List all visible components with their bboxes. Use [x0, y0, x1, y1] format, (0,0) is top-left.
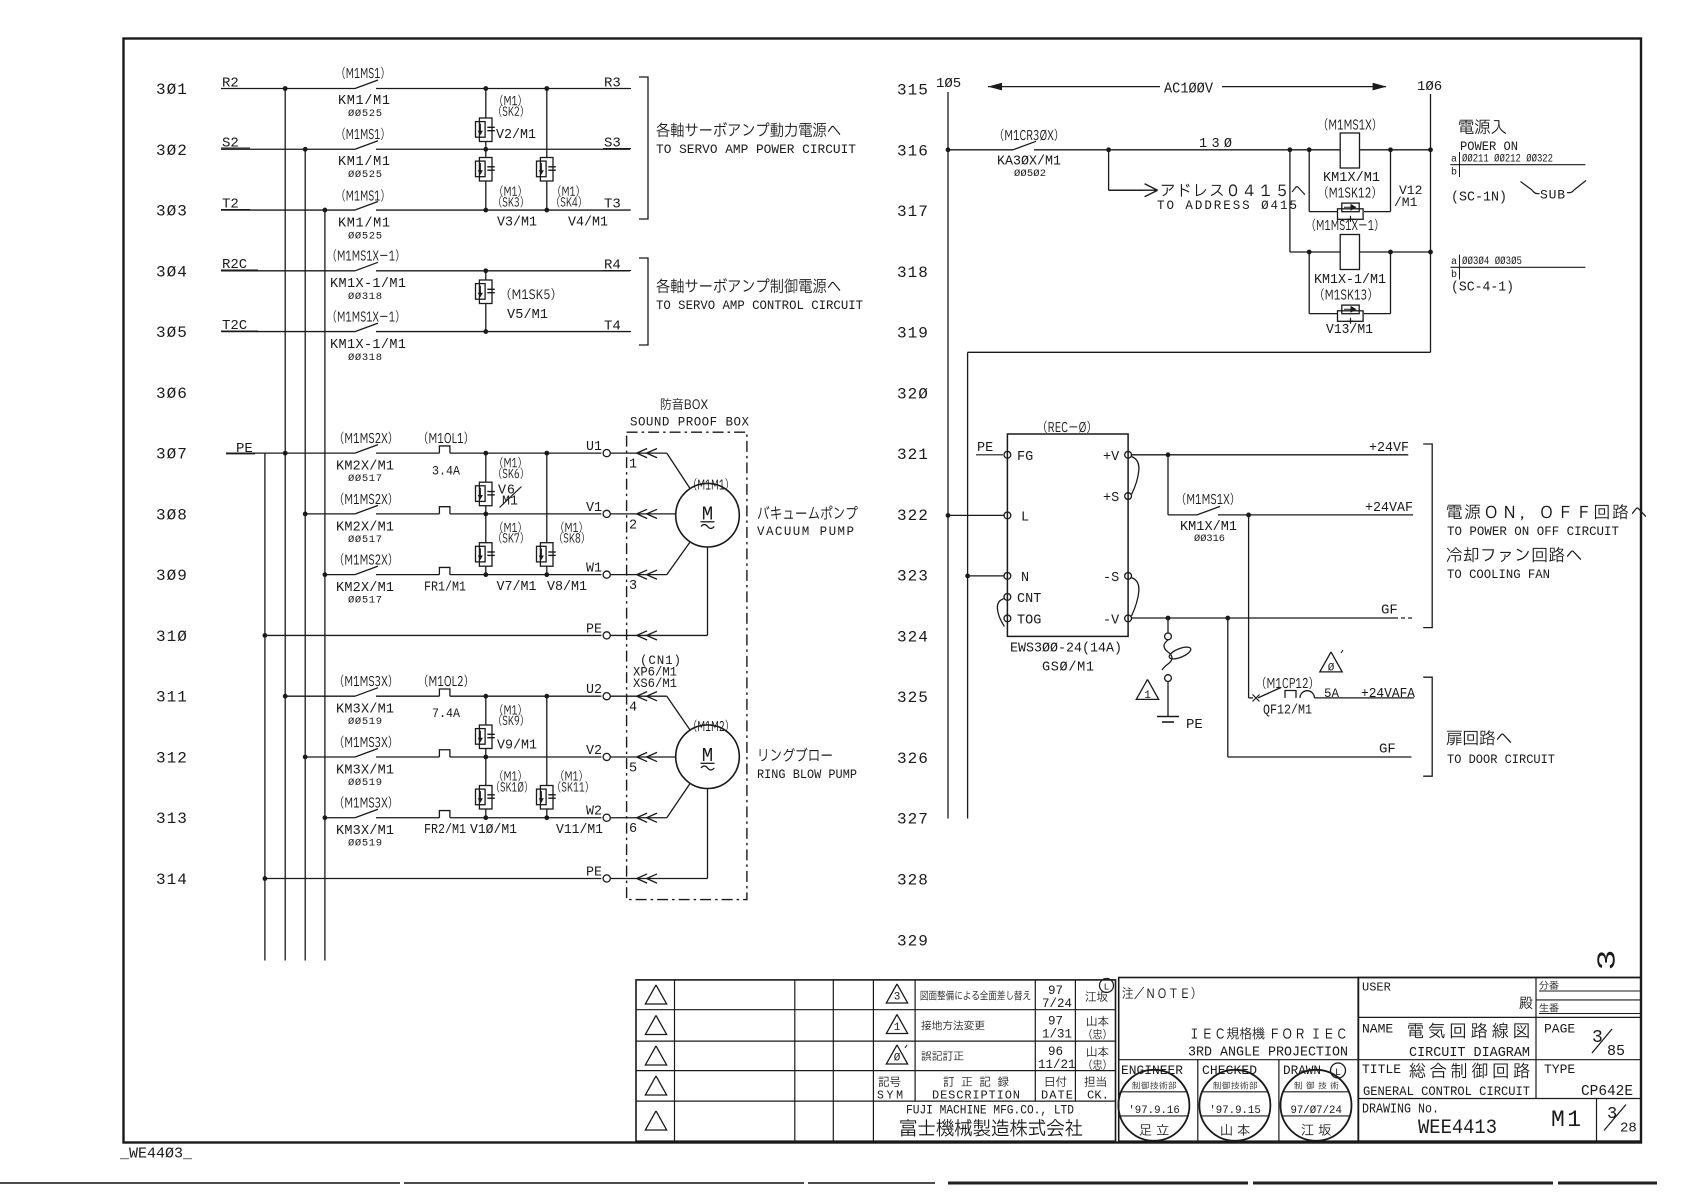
- junction VA row302: [483, 147, 488, 152]
- wire +24VF rail: [1132, 454, 1409, 456]
- svg-text:3Ø9: 3Ø9: [156, 567, 188, 585]
- svg-text:11/21: 11/21: [1038, 1058, 1076, 1072]
- svg-text:5A: 5A: [1324, 687, 1340, 701]
- svg-text:ØØ519: ØØ519: [348, 838, 382, 850]
- svg-text:FR1/M1: FR1/M1: [424, 581, 466, 596]
- svg-text:319: 319: [897, 325, 929, 343]
- junction VA row309: [483, 572, 488, 577]
- junction VA row307: [483, 451, 488, 456]
- rev header ck (jp): [1084, 1076, 1105, 1086]
- wire motor M1M2 to PE row314: [610, 878, 707, 880]
- svg-text:V9/M1: V9/M1: [497, 739, 537, 754]
- stamp row divider: [1119, 1059, 1359, 1061]
- svg-text:3.4A: 3.4A: [432, 465, 460, 479]
- svg-text:KM1X-1/M1: KM1X-1/M1: [1314, 273, 1386, 288]
- svg-text:ØØ517: ØØ517: [348, 534, 382, 546]
- svg-text:PE: PE: [977, 441, 993, 456]
- warning triangle 0: [1320, 652, 1342, 672]
- title block frame: [1358, 978, 1641, 1142]
- coil KM1X/M1 (M1MS1X): [1340, 133, 1359, 168]
- wire branch row322 to QF12: [1248, 515, 1250, 698]
- overload M1OL2 element row311: [439, 689, 450, 696]
- svg-text:PE: PE: [236, 441, 253, 457]
- terminal W2 motor2: [603, 814, 610, 821]
- svg-text:317: 317: [897, 203, 929, 221]
- label NOTE (jp): [1122, 987, 1194, 999]
- svg-text:311: 311: [156, 689, 188, 707]
- svg-text:U1: U1: [586, 440, 602, 455]
- junction VA row311: [483, 694, 488, 699]
- svg-text:TITLE: TITLE: [1362, 1062, 1401, 1077]
- junction +24VF branch: [1166, 452, 1171, 457]
- surge V12/M1 (M1SK12) across coil KM1X: [1307, 147, 1312, 152]
- rev header description (jp): [944, 1077, 1009, 1087]
- svg-text:QF12/M1: QF12/M1: [1263, 704, 1312, 719]
- wire row 308: [305, 513, 355, 515]
- chevron arrows W2 motor2: [637, 813, 647, 822]
- surge absorber V4/M1 (M1 SK4) with feed from row301: [546, 89, 548, 158]
- svg-text:329: 329: [897, 932, 929, 950]
- junction row318 at 106: [1428, 250, 1433, 255]
- bus vertical S phase: [304, 149, 306, 960]
- svg-text:V7/M1: V7/M1: [497, 580, 537, 595]
- junction PE bus row314: [263, 876, 268, 881]
- svg-text:327: 327: [897, 811, 929, 829]
- svg-text:GF: GF: [1379, 742, 1396, 758]
- wire row 302 S2-S3: [221, 148, 355, 150]
- svg-text:'97.9.16: '97.9.16: [1128, 1105, 1179, 1117]
- svg-text:R4: R4: [604, 258, 621, 274]
- rev row2 description (jp): [921, 1020, 984, 1030]
- surge absorber V7/M1 (M1 SK7): [485, 514, 487, 543]
- junction VB row303: [544, 208, 549, 213]
- svg-text:V13/M1: V13/M1: [1326, 323, 1373, 338]
- svg-text:7/24: 7/24: [1042, 997, 1072, 1011]
- overload M1OL1 element row307: [439, 446, 450, 453]
- junction VB row311: [544, 694, 549, 699]
- chevron arrows W1: [637, 570, 647, 579]
- svg-text:3Ø3: 3Ø3: [156, 203, 188, 221]
- svg-text:328: 328: [897, 872, 929, 890]
- sound proof box enclosure (dash-dot): [627, 432, 747, 899]
- junction VA row304: [483, 268, 488, 273]
- motor M1M2 ring blow pump: [676, 725, 740, 789]
- svg-text:1Ø5: 1Ø5: [936, 76, 961, 92]
- junction R bus row311: [283, 694, 288, 699]
- wire GF rail from -V: [1132, 617, 1399, 619]
- svg-text:318: 318: [897, 264, 929, 282]
- label to door circuit (jp): [1447, 730, 1512, 745]
- svg-text:28: 28: [1620, 1121, 1637, 1137]
- rev header sym (jp): [879, 1077, 901, 1087]
- rev row3 by (jp): [1087, 1046, 1108, 1056]
- checked stamp (Yamamoto): [1199, 1070, 1270, 1141]
- junction bus2 N: [965, 574, 970, 579]
- svg-text:3Ø7: 3Ø7: [156, 446, 188, 464]
- junction S bus row308: [303, 511, 308, 516]
- wire motor M1M1 to PE row310: [610, 634, 707, 636]
- svg-text:4: 4: [629, 701, 637, 716]
- engineer stamp (Adachi): [1118, 1070, 1189, 1141]
- svg-text:V3/M1: V3/M1: [497, 216, 537, 231]
- svg-text:TO POWER ON OFF CIRCUIT: TO POWER ON OFF CIRCUIT: [1447, 524, 1619, 539]
- rev row1 by (jp): [1085, 991, 1107, 1001]
- terminal +V: [1125, 451, 1132, 458]
- svg-text:U2: U2: [586, 683, 602, 698]
- svg-text:5: 5: [629, 761, 637, 776]
- terminal U1: [603, 450, 610, 457]
- power supply unit REC-0 EWS300-24: [1007, 434, 1128, 636]
- bunban seiban cells (jp): [1536, 999, 1641, 1001]
- svg-text:PE: PE: [1186, 717, 1203, 733]
- surge absorber V6/M1 (M1 SK6): [485, 453, 487, 482]
- terminal V1: [603, 510, 610, 517]
- svg-text:323: 323: [897, 568, 929, 586]
- wires chevrons to motor M1M2: [610, 695, 667, 697]
- rev row2 by (jp): [1087, 1016, 1108, 1026]
- svg-text:ØØ318: ØØ318: [348, 352, 382, 364]
- svg-text:13Ø: 13Ø: [1199, 137, 1232, 152]
- sense jumper +V +S: [1131, 457, 1139, 495]
- maker name kanji: [900, 1119, 1082, 1136]
- rev triangle 3: [886, 984, 907, 1003]
- terminal CNT: [1004, 594, 1011, 601]
- junction T bus row303: [323, 208, 328, 213]
- junction VB row301: [544, 86, 549, 91]
- svg-text:CK.: CK.: [1087, 1089, 1109, 1103]
- overload element row312: [439, 750, 450, 757]
- coil KM1X-1/M1 (M1MS1X-1): [1340, 235, 1359, 270]
- svg-text:314: 314: [156, 871, 188, 889]
- junction VA row301: [483, 86, 488, 91]
- svg-text:+V: +V: [1103, 450, 1120, 465]
- chevron arrows PE: [637, 631, 647, 640]
- wire row 305 T2C-T4: [221, 331, 355, 333]
- svg-text:V1: V1: [586, 501, 602, 516]
- svg-text:325: 325: [897, 689, 929, 707]
- bus vertical T phase: [324, 210, 326, 960]
- svg-text:97/Ø7/24: 97/Ø7/24: [1290, 1105, 1342, 1117]
- contact KM3X/M1 row313 (M1MS3X): [355, 809, 378, 818]
- branch to address 0415: [1106, 147, 1111, 152]
- contact KM1/M1 row303 (M1MS1): [355, 202, 378, 211]
- svg-text:3: 3: [629, 579, 637, 594]
- svg-text:ØØ5Ø2: ØØ5Ø2: [1014, 168, 1046, 180]
- label to power on off circuit (jp): [1447, 504, 1646, 520]
- rev triangle 1: [886, 1014, 907, 1033]
- svg-text:316: 316: [897, 142, 929, 160]
- svg-text:1: 1: [629, 458, 637, 473]
- label address 0415 (jp): [1162, 184, 1306, 197]
- rev row3 description (jp): [921, 1051, 963, 1061]
- wire row 309: [325, 574, 355, 576]
- svg-text:97: 97: [1048, 1015, 1063, 1029]
- svg-text:3Ø8: 3Ø8: [156, 506, 188, 524]
- contact KA30X/M1 (M1CR30X): [1013, 141, 1036, 150]
- svg-text:96: 96: [1048, 1045, 1063, 1059]
- contact KM2X/M1 row308 (M1MS2X): [355, 505, 378, 514]
- svg-text:R3: R3: [604, 76, 621, 92]
- svg-text:97: 97: [1048, 984, 1063, 998]
- junction VA row312: [483, 755, 488, 760]
- svg-text:1: 1: [1144, 690, 1151, 702]
- terminal -S: [1125, 573, 1132, 580]
- svg-text:322: 322: [897, 507, 929, 525]
- svg-text:3: 3: [1592, 1028, 1603, 1048]
- svg-text:KM1/M1: KM1/M1: [338, 155, 390, 170]
- svg-text:326: 326: [897, 750, 929, 768]
- wire branch down to KM1X contact: [1167, 455, 1169, 515]
- svg-text:V2: V2: [586, 744, 602, 759]
- svg-text:XS6/M1: XS6/M1: [633, 677, 677, 691]
- wire row 326 GF: [1227, 618, 1229, 757]
- contact KM1X-1/M1 row304 (M1MS1X-1): [355, 262, 378, 271]
- wire row 307: [226, 452, 355, 454]
- svg-text:ØØ525: ØØ525: [348, 231, 382, 243]
- svg-text:CNT: CNT: [1017, 592, 1041, 607]
- label power on (jp): [1459, 119, 1506, 134]
- junction PE bus row310: [263, 633, 268, 638]
- label vacuum pump (jp): [758, 505, 858, 519]
- terminal V2 motor2: [603, 753, 610, 760]
- svg-text:PE: PE: [586, 866, 602, 881]
- label servo amp power (jp): [656, 122, 840, 137]
- svg-text:(SC-4-1): (SC-4-1): [1451, 280, 1514, 296]
- svg-text:FUJI MACHINE MFG.CO., LTD: FUJI MACHINE MFG.CO., LTD: [906, 1104, 1074, 1118]
- svg-text:PAGE: PAGE: [1544, 1022, 1575, 1037]
- svg-text:3: 3: [894, 992, 901, 1004]
- chevron arrows PE motor2: [637, 874, 647, 883]
- svg-text:V2/M1: V2/M1: [496, 128, 536, 143]
- terminal PE motor2: [603, 875, 610, 882]
- svg-text:N: N: [1021, 571, 1029, 586]
- terminal L: [1004, 512, 1011, 519]
- svg-text:KM1X/M1: KM1X/M1: [1323, 171, 1380, 186]
- contact KM3X/M1 row312 (M1MS3X): [355, 748, 378, 757]
- svg-text:324: 324: [897, 628, 929, 646]
- junction S bus row312: [303, 755, 308, 760]
- right line-number column 315-329: [897, 82, 929, 951]
- note block frame: [1119, 978, 1359, 1142]
- svg-text:V5/M1: V5/M1: [507, 308, 548, 323]
- earth ground symbol PE: [1157, 716, 1179, 718]
- junction row316 at 106: [1428, 147, 1433, 152]
- svg-text:RING BLOW PUMP: RING BLOW PUMP: [757, 768, 857, 782]
- chevron arrows V2 motor2: [637, 752, 647, 761]
- svg-text:AC1ØØV: AC1ØØV: [1164, 82, 1213, 98]
- svg-text:TO SERVO AMP CONTROL CIRCUIT: TO SERVO AMP CONTROL CIRCUIT: [656, 298, 863, 313]
- bracket power on/off circuit: [1423, 444, 1432, 628]
- svg-text:ØØ316: ØØ316: [1194, 533, 1225, 545]
- surge absorber V8/M1 (M1 SK8) fed from row307: [546, 453, 548, 543]
- svg-text:(SC-1N): (SC-1N): [1451, 190, 1507, 206]
- svg-text:3RD ANGLE PROJECTION: 3RD ANGLE PROJECTION: [1188, 1046, 1348, 1061]
- junction VA row305: [483, 329, 488, 334]
- svg-text:Ø: Ø: [1328, 663, 1335, 675]
- surge absorber V3/M1 (M1 SK3): [485, 149, 487, 157]
- terminal PE: [603, 632, 610, 639]
- circled L row1: [1100, 979, 1114, 993]
- terminal W1: [603, 571, 610, 578]
- svg-text:KM1/M1: KM1/M1: [338, 94, 390, 109]
- junction VA row313: [483, 815, 488, 820]
- revision marker triangles column: [645, 985, 666, 1004]
- svg-text:L: L: [1021, 511, 1029, 526]
- svg-text:32Ø: 32Ø: [897, 385, 929, 403]
- svg-text:L: L: [1104, 982, 1110, 993]
- wire row322 +24VAF: [1168, 514, 1197, 516]
- vertical 106: [1430, 94, 1432, 352]
- wire 105 bus to L: [948, 514, 1004, 516]
- svg-text:+24VAFA: +24VAFA: [1361, 686, 1416, 702]
- svg-text:TO SERVO AMP POWER CIRCUIT: TO SERVO AMP POWER CIRCUIT: [656, 142, 856, 157]
- junction row326 branch: [1225, 616, 1230, 621]
- svg-text:CIRCUIT DIAGRAM: CIRCUIT DIAGRAM: [1409, 1046, 1530, 1061]
- wire row 314 PE to motor2: [265, 878, 602, 880]
- wire row 301 R2-R3: [221, 88, 355, 90]
- contact KM1/M1 row302 (M1MS1): [355, 141, 378, 150]
- svg-text:SOUND PROOF BOX: SOUND PROOF BOX: [630, 416, 749, 430]
- rev triangle 0: [886, 1045, 907, 1064]
- svg-text:-V: -V: [1103, 614, 1120, 629]
- surge absorber V10/M1 (M1 SK10): [485, 757, 487, 786]
- junction VB row309: [544, 572, 549, 577]
- surge absorber V5/M1 (M1SK5): [485, 271, 487, 280]
- svg-text:3Ø5: 3Ø5: [156, 324, 188, 342]
- junction VB row313: [544, 815, 549, 820]
- svg-text:EWS3ØØ-24(14A): EWS3ØØ-24(14A): [1010, 642, 1122, 657]
- page bottom scan edge line: [0, 1182, 935, 1184]
- terminal U2 motor2: [603, 693, 610, 700]
- terminal +S: [1125, 493, 1132, 500]
- contact KM2X/M1 row309 (M1MS2X): [355, 566, 378, 575]
- svg-text:ØØ519: ØØ519: [348, 777, 382, 789]
- label ring blow pump (jp): [760, 748, 832, 762]
- svg-text:TYPE: TYPE: [1544, 1062, 1575, 1077]
- junction R bus row301: [283, 86, 288, 91]
- return rail row 319: [968, 351, 1431, 353]
- left line-number column 301-314: [156, 81, 188, 889]
- revision table frame: [636, 980, 1116, 1141]
- svg-text:3Ø1: 3Ø1: [156, 81, 188, 99]
- junction gnd branch: [1166, 616, 1171, 621]
- svg-text:3Ø6: 3Ø6: [156, 385, 188, 403]
- svg-text:6: 6: [629, 822, 637, 837]
- terminal -V: [1125, 615, 1132, 622]
- label servo amp control (jp): [656, 278, 840, 293]
- SUB continuation mark: [1521, 182, 1533, 191]
- svg-text:V8/M1: V8/M1: [547, 580, 587, 595]
- svg-text:ØØ525: ØØ525: [348, 108, 382, 120]
- cell M1: [1596, 1099, 1598, 1142]
- svg-text:2: 2: [629, 518, 637, 533]
- svg-text:7.4A: 7.4A: [432, 707, 460, 721]
- svg-text:KM1X-1/M1: KM1X-1/M1: [330, 338, 406, 353]
- junction 105 row316: [946, 147, 951, 152]
- svg-text:W2: W2: [586, 805, 602, 820]
- wire row 312: [305, 756, 355, 758]
- branch wire to KM1X-1 row318: [1288, 147, 1293, 152]
- rev header date (jp): [1046, 1076, 1067, 1087]
- rev row1 description (jp): [921, 990, 1031, 1000]
- svg-text:ØØ525: ØØ525: [348, 169, 382, 181]
- svg-text:_WE44Ø3_: _WE44Ø3_: [119, 1146, 193, 1163]
- svg-text:SUB: SUB: [1540, 188, 1565, 203]
- chevron arrows U1: [637, 449, 647, 458]
- svg-text:VACUUM PUMP: VACUUM PUMP: [757, 525, 854, 539]
- breaker QF12/M1 (M1CP12) 5A: [1253, 695, 1260, 702]
- label to cooling fan (jp): [1447, 547, 1582, 562]
- PE bus vertical: [264, 453, 266, 960]
- svg-text:V4/M1: V4/M1: [568, 216, 608, 231]
- svg-text:DRAWING No.: DRAWING No.: [1362, 1103, 1439, 1118]
- wire row 311: [285, 695, 355, 697]
- contact KM2X/M1 row307 (M1MS2X): [355, 445, 378, 454]
- svg-text:V11/M1: V11/M1: [556, 823, 603, 838]
- terminal TOG: [1004, 615, 1011, 622]
- label IEC standard (jp): [1192, 1027, 1346, 1039]
- junction R bus row307: [283, 451, 288, 456]
- svg-text:KM1/M1: KM1/M1: [338, 217, 390, 232]
- svg-text:a: a: [1451, 155, 1457, 166]
- svg-text:NAME: NAME: [1362, 1022, 1393, 1037]
- svg-text:-S: -S: [1103, 571, 1119, 586]
- svg-text:ØØ517: ØØ517: [348, 473, 382, 485]
- circled L drawn: [1331, 1063, 1346, 1078]
- svg-text:WEE4413: WEE4413: [1418, 1117, 1497, 1140]
- svg-text:3Ø2: 3Ø2: [156, 142, 188, 160]
- surge absorber V2/M1 (M1 SK2): [485, 89, 487, 119]
- warning triangle 1: [1136, 679, 1158, 699]
- drawing name (jp): [1408, 1023, 1528, 1039]
- svg-text:+24VF: +24VF: [1369, 440, 1409, 456]
- svg-text:T4: T4: [604, 319, 621, 335]
- AC100V span arrow: [988, 86, 1160, 88]
- contact KM1X-1/M1 row305 (M1MS1X-1): [355, 323, 378, 332]
- svg-text:313: 313: [156, 810, 188, 828]
- svg-text:TO COOLING FAN: TO COOLING FAN: [1447, 567, 1550, 582]
- terminal FG: [1004, 451, 1011, 458]
- svg-text:V1Ø/M1: V1Ø/M1: [470, 823, 517, 838]
- junction T bus row313: [323, 815, 328, 820]
- overload element row308: [439, 507, 450, 514]
- svg-text:ØØ517: ØØ517: [348, 595, 382, 607]
- terminal N: [1004, 573, 1011, 580]
- jumper CNT TOG: [997, 599, 1004, 627]
- surge absorber V11/M1 (M1 SK11) fed from row311: [546, 696, 548, 785]
- svg-text:USER: USER: [1362, 981, 1391, 995]
- svg-text:1Ø6: 1Ø6: [1417, 79, 1442, 95]
- svg-text:ØØ318: ØØ318: [348, 291, 382, 303]
- wire bus2 to N: [968, 575, 1004, 577]
- wire row 310 PE to motor1: [265, 634, 602, 636]
- ground drop from GF rail: [1167, 618, 1169, 633]
- svg-text:ØØ519: ØØ519: [348, 716, 382, 728]
- drawn stamp (Esaka): [1281, 1070, 1352, 1141]
- wire row 304 R2C-R4: [221, 270, 355, 272]
- surge V13/M1 (M1SK13) across coil KM1X-1: [1307, 250, 1312, 255]
- surge absorber V9/M1 (M1 SK9): [485, 696, 487, 725]
- wire row 316: [948, 149, 1013, 151]
- junction 105 L: [946, 513, 951, 518]
- bus vertical 105: [947, 92, 949, 819]
- contact KM1/M1 row301 (M1MS1): [355, 80, 378, 89]
- svg-text:TO DOOR CIRCUIT: TO DOOR CIRCUIT: [1447, 752, 1555, 767]
- svg-text:3: 3: [1593, 950, 1623, 971]
- label tono (jp): [1519, 997, 1532, 1009]
- junction row322: [1246, 513, 1251, 518]
- wire row 303 T2-T3: [221, 209, 355, 211]
